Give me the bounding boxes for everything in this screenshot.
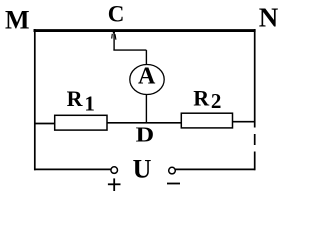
node M label	[5, 6, 30, 35]
wire bottom left segment to battery + terminal	[34, 168, 111, 170]
resistor R2	[181, 113, 232, 128]
wire middle left segment	[34, 123, 55, 125]
ammeter A	[130, 64, 164, 95]
resistor R2 label	[193, 85, 221, 113]
plus sign	[108, 178, 121, 191]
node N label	[259, 3, 279, 33]
node C label	[108, 2, 125, 27]
wire wiper horizontal to ammeter branch	[113, 49, 146, 51]
wire wiper arrow shaft down from C	[113, 32, 115, 50]
source U label	[133, 155, 152, 184]
wire right vertical lower solid to bottom corner	[254, 152, 256, 171]
svg-text:A: A	[138, 64, 156, 90]
wiper arrowhead at C	[112, 32, 116, 40]
svg-text:R: R	[67, 86, 84, 111]
svg-text:D: D	[136, 122, 155, 146]
wire top slide-wire M to N	[34, 29, 256, 32]
wire middle segment R1 to R2 through node D	[107, 122, 182, 124]
node D label	[136, 122, 155, 146]
resistor R1 label	[67, 86, 95, 115]
resistor R1	[55, 115, 107, 130]
minus sign	[167, 183, 180, 185]
wire bottom right segment battery - to right vertical	[175, 168, 255, 170]
svg-text:N: N	[259, 3, 279, 33]
svg-text:R: R	[193, 85, 210, 110]
svg-text:1: 1	[84, 92, 95, 116]
battery terminal circle -	[169, 167, 176, 174]
svg-text:C: C	[108, 2, 125, 27]
svg-text:2: 2	[211, 89, 222, 113]
svg-text:U: U	[133, 155, 152, 184]
wire right vertical N down to middle wire	[254, 29, 256, 128]
wire middle right segment R2 to right vertical	[233, 121, 256, 123]
battery terminal circle +	[111, 167, 118, 174]
wire down to ammeter top	[145, 50, 147, 65]
svg-text:M: M	[5, 6, 30, 35]
wire ammeter bottom to node D	[145, 94, 147, 123]
wire right vertical dashed break segment	[254, 134, 256, 145]
wire left vertical M down to bottom	[34, 29, 36, 170]
